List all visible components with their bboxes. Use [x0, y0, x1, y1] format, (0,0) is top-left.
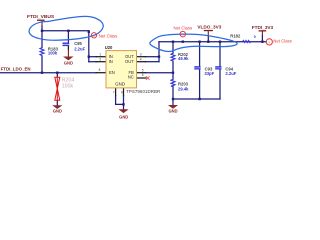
svg-text:100k: 100k [62, 84, 74, 90]
svg-text:FTDI_LDO_EN: FTDI_LDO_EN [1, 67, 31, 72]
svg-text:TPS79601DRBR: TPS79601DRBR [126, 89, 160, 94]
svg-text:GND: GND [64, 61, 73, 66]
svg-text:Net Class: Net Class [99, 33, 118, 38]
svg-text:1: 1 [99, 53, 101, 57]
svg-text:33pF: 33pF [204, 71, 214, 76]
svg-text:U20: U20 [105, 45, 113, 50]
svg-text:GND: GND [119, 114, 128, 119]
svg-text:2.2uF: 2.2uF [225, 71, 236, 76]
svg-text:C85: C85 [74, 41, 82, 46]
svg-text:9: 9 [121, 91, 123, 95]
svg-text:4: 4 [140, 58, 142, 62]
svg-text:FTDI_3V3: FTDI_3V3 [252, 25, 274, 30]
svg-text:GND: GND [168, 108, 177, 113]
svg-text:R182: R182 [230, 34, 241, 39]
svg-text:R204: R204 [62, 77, 75, 83]
svg-text:Net Class: Net Class [174, 25, 193, 30]
svg-text:OUT: OUT [125, 59, 134, 64]
svg-text:GND: GND [115, 82, 126, 87]
svg-text:EN: EN [109, 70, 115, 75]
svg-text:3: 3 [140, 52, 142, 56]
svg-text:5: 5 [142, 69, 144, 73]
svg-text:6: 6 [142, 73, 144, 77]
svg-text:Net Class: Net Class [273, 38, 292, 43]
svg-text:0: 0 [254, 35, 256, 39]
svg-text:IN: IN [109, 59, 113, 64]
svg-text:2.2uF: 2.2uF [74, 46, 85, 51]
svg-text:49.9k: 49.9k [178, 56, 189, 61]
svg-text:100k: 100k [48, 50, 58, 55]
svg-text:VLDO_3V3: VLDO_3V3 [197, 24, 221, 29]
svg-text:8: 8 [99, 68, 101, 72]
svg-text:2: 2 [99, 58, 101, 62]
svg-text:7: 7 [113, 91, 115, 95]
svg-text:29.4k: 29.4k [178, 87, 189, 92]
svg-text:FTDI_VBUS: FTDI_VBUS [27, 14, 55, 20]
svg-text:NC: NC [128, 75, 134, 80]
svg-text:GND: GND [53, 109, 62, 114]
